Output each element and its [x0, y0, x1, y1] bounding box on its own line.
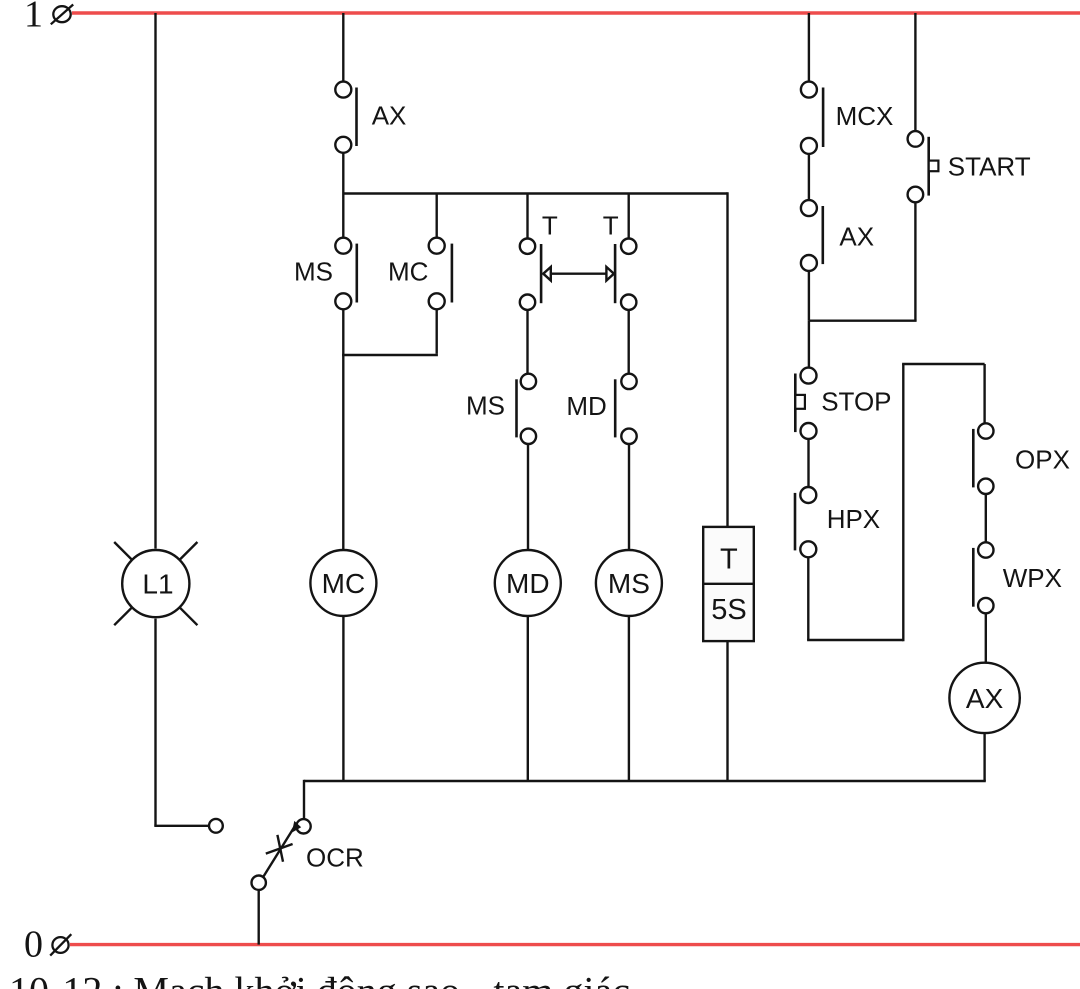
wire OCR to rail 0	[258, 890, 260, 945]
timer contact T (left)	[520, 211, 558, 310]
rail 0 (bottom power rail)	[70, 943, 1080, 946]
wire STOP to HPX	[807, 439, 809, 487]
svg-text:MCX: MCX	[836, 101, 894, 131]
contact MCX (NO)	[801, 82, 893, 154]
svg-text:MD: MD	[506, 568, 550, 599]
contact WPX (NO)	[973, 542, 1062, 613]
contact AX (NO, right rung)	[801, 200, 874, 271]
wire AX down to junction	[808, 271, 810, 321]
coil AX	[949, 663, 1019, 733]
svg-text:L1: L1	[142, 569, 173, 600]
pushbutton STOP (NC)	[795, 368, 891, 439]
rail 0 label	[24, 924, 43, 966]
wire lamp branch from rail 1	[154, 13, 156, 549]
wire control rung from rail 1	[808, 13, 810, 82]
coil MS	[596, 550, 662, 616]
contact OPX (NO)	[973, 423, 1070, 494]
wire AX to sub-bus	[342, 153, 344, 194]
svg-text:T: T	[720, 543, 738, 575]
wire timer branch down	[726, 192, 728, 527]
contact MS (NC interlock)	[466, 374, 536, 444]
svg-text:T: T	[603, 210, 619, 240]
svg-text:STOP: STOP	[821, 387, 891, 417]
wire to coil MD	[527, 444, 529, 550]
timer contact T (right)	[603, 194, 637, 310]
wire OPX to WPX	[985, 494, 987, 542]
contact HPX (NO)	[795, 487, 880, 557]
svg-text:HPX: HPX	[827, 504, 880, 534]
wire below L1	[154, 619, 209, 826]
wire START to junction	[914, 202, 916, 320]
svg-text:AX: AX	[839, 222, 874, 252]
svg-text:5S: 5S	[711, 594, 746, 626]
caption	[9, 968, 630, 989]
wire bottom bus	[304, 780, 986, 782]
wire START branch from rail 1	[914, 13, 916, 131]
svg-text:OCR: OCR	[306, 842, 364, 872]
svg-text:10-12 : Mạch khởi động sao - t: 10-12 : Mạch khởi động sao - tam giác	[9, 968, 630, 989]
wire T-left stub	[526, 194, 528, 239]
svg-text:MS: MS	[294, 256, 333, 286]
wire MCX to AX	[808, 154, 810, 200]
wire bus to OCR	[303, 780, 305, 819]
wire down to OPX	[983, 364, 985, 423]
lamp L1	[114, 542, 197, 625]
coil MD	[495, 550, 561, 616]
wire coil AX to bottom bus	[983, 734, 985, 781]
wire down to coil MC	[342, 355, 344, 550]
wire T-left to MS interlock	[526, 310, 528, 374]
rail 1 label	[24, 0, 43, 35]
wire WPX to coil AX	[985, 613, 987, 662]
overload contact OCR	[252, 819, 364, 890]
pushbutton START (NO)	[908, 131, 1031, 202]
svg-text:1: 1	[24, 0, 43, 35]
wire coil MD to bottom bus	[527, 616, 529, 781]
contact MC (NO, parallel)	[388, 194, 452, 310]
contact AX (NO)	[335, 82, 406, 153]
coil MC	[310, 550, 376, 616]
rail 0 phase symbol	[50, 934, 71, 955]
rail 1 phase symbol	[51, 5, 73, 25]
wire T-right to MD interlock	[628, 310, 630, 374]
svg-text:MC: MC	[322, 568, 366, 599]
wire junction horizontal	[809, 320, 917, 322]
wire MC-rung from rail 1	[342, 13, 344, 82]
svg-text:MS: MS	[608, 568, 650, 599]
svg-text:MD: MD	[566, 391, 606, 421]
wire to coil MS	[628, 444, 630, 550]
wire coil MS to bottom bus	[628, 616, 630, 781]
wire timer to bottom bus	[726, 641, 728, 781]
svg-text:WPX: WPX	[1003, 563, 1062, 593]
contact MD (NC interlock)	[566, 374, 636, 444]
svg-text:MS: MS	[466, 390, 505, 420]
svg-text:MC: MC	[388, 256, 428, 286]
wire coil MC to bottom bus	[342, 616, 344, 781]
wire join of MS/MC parallel pair	[342, 309, 438, 355]
contact MS (NO, seal-in)	[294, 194, 357, 310]
rail 1 (top power rail)	[72, 11, 1080, 14]
svg-text:OPX: OPX	[1015, 445, 1070, 475]
wire sub-bus horizontal	[343, 192, 727, 194]
svg-text:AX: AX	[372, 100, 407, 130]
svg-text:T: T	[542, 211, 558, 241]
wire HPX return path to OPX branch	[807, 364, 985, 641]
timer mechanical link with arrowheads	[543, 267, 614, 281]
svg-text:0: 0	[24, 924, 43, 966]
svg-text:START: START	[948, 151, 1031, 181]
timer T 5S (on-delay timer)	[703, 527, 754, 641]
svg-text:AX: AX	[966, 683, 1004, 714]
wire junction to STOP	[808, 321, 810, 368]
open terminal node	[209, 819, 223, 833]
